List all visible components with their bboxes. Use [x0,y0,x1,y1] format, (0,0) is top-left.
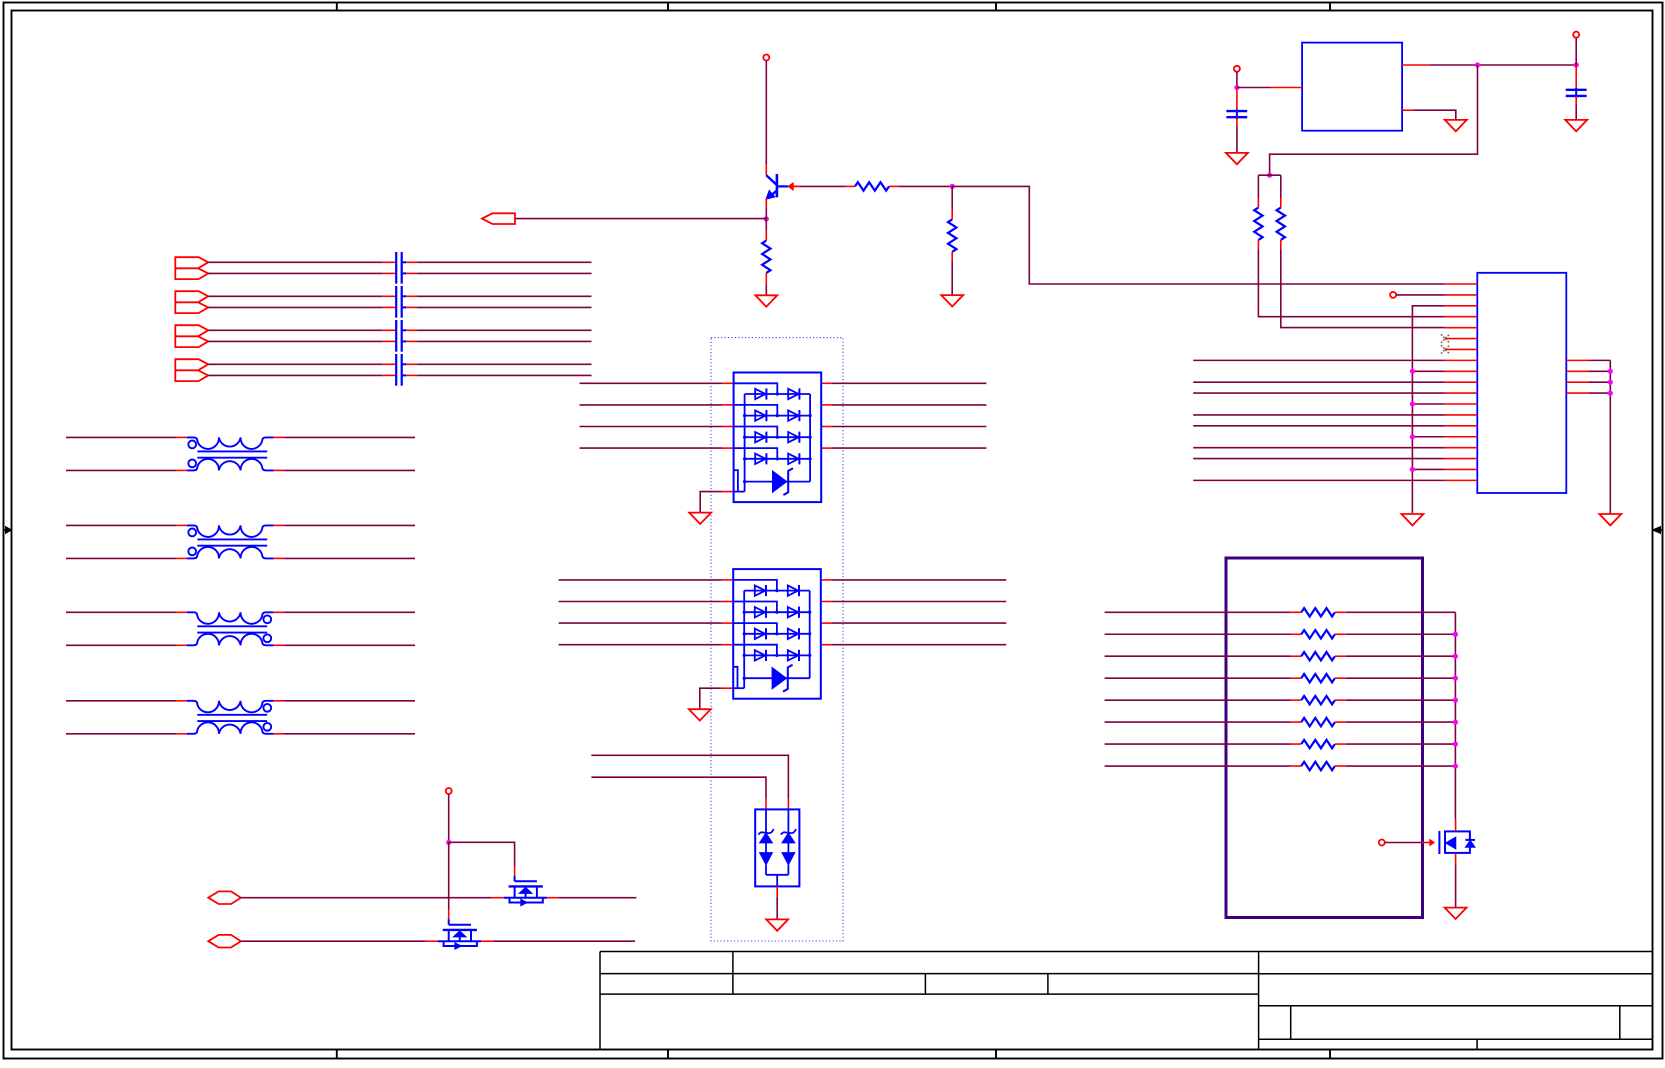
port CN4 [175,359,208,381]
port CN3 [175,325,208,347]
junction node C [1234,85,1239,90]
ground GND6 [1401,514,1423,525]
wire T1 out top [274,436,415,438]
wire collector [765,164,767,175]
ground GND1 [941,295,963,306]
wire T2 in bottom [66,557,187,559]
wire row 4 left [1105,677,1302,679]
wire CN2b [208,306,591,308]
regulator U2 [1302,43,1402,131]
wire T2 out top [274,524,415,526]
wire T1 in bottom [66,469,187,471]
ground GND5 [1445,120,1467,131]
IC U1 [1477,273,1566,493]
transistor Q3 [438,919,481,949]
wire row 7 right [1335,743,1456,745]
wire row 6 right [1335,721,1456,723]
no-connect X pin7 [1441,345,1449,353]
resistor RN7 [1301,740,1335,748]
resistor RN8 [1301,762,1335,770]
common-mode choke T2 [187,525,274,558]
ground GND8 [766,919,788,930]
resistor R1 [855,182,889,190]
border zone ticks top [337,3,1330,11]
wire output to divider [1270,65,1478,175]
wire CN4b [208,374,591,376]
wire T3 out bottom [274,644,415,646]
wire T3 in top [66,611,187,613]
wire CN1a [208,261,591,263]
wire CN4a [208,363,591,365]
wire row 3 left [1105,655,1302,657]
port IO2 [208,935,241,948]
sheet symbol SH1 [1226,558,1423,918]
wire CN2a [208,295,591,297]
wires U3 right [821,383,986,448]
wire gnd bus right [1608,360,1613,514]
resistor R5 [1277,175,1285,249]
wire row 1 left [1105,611,1302,613]
wire Q4 source [1455,864,1457,907]
port OUT1 [482,213,515,224]
common-mode choke T1 [187,437,274,470]
power port VCC1 [763,55,769,165]
resistor RN6 [1301,718,1335,726]
border mid arrow left [4,527,12,534]
wire T4 in bottom [66,733,187,735]
base pin arrow [788,183,800,190]
wire resistor bus [1453,612,1458,819]
capacitor C2 [1566,65,1587,120]
wire T2 in top [66,524,187,526]
resistor RN1 [1301,608,1335,616]
wire R4 to U1 pin4 [1258,249,1444,316]
wire row 5 left [1105,699,1302,701]
port EN1 [1379,840,1435,846]
ground GND7 [1599,514,1621,525]
power port VCC4 [446,788,452,842]
wire U3 gnd [700,492,733,513]
wire T4 out top [274,700,415,702]
junction node G [446,840,451,845]
power port VCC3 [1573,32,1579,65]
junction node B [764,216,769,221]
jumper J2 [396,286,406,318]
wires U1 to gnd bus [1410,369,1445,472]
common-mode choke T4 [187,701,274,734]
resistor R4 [1254,175,1262,249]
wire row 6 left [1105,721,1302,723]
wires U3 left [580,383,734,448]
resistor R2 [948,186,956,295]
wire CN3a [208,329,591,331]
wires U1 left long [1193,360,1445,480]
wire to Q2 gate [449,842,515,875]
wire node A to U1 pin1 [952,186,1445,284]
wire R1 to node [889,185,952,187]
wire VCC2 to U2 [1237,87,1302,89]
wires U4 left [559,580,734,645]
wire base [800,185,855,187]
wire row 4 right [1335,677,1456,679]
ground GND3 [1226,153,1248,164]
wire U2 output [1402,64,1576,66]
ground GND4 [1565,120,1587,131]
junction node E [1574,62,1579,67]
port CN1 [175,257,208,279]
ESD diode array U3 [734,373,822,503]
wire gnd bus left [1412,306,1444,514]
port IN2 [1390,292,1445,298]
ESD diode array U4 [733,569,821,699]
jumper J4 [396,354,406,386]
transistor Q1 [766,174,788,199]
resistor RN5 [1301,696,1335,704]
wire row 8 left [1105,765,1302,767]
wire D9 gnd [776,886,778,919]
ground GND9 [1445,908,1467,919]
wire row 5 right [1335,699,1456,701]
wire to Q3 gate [448,842,450,919]
selection rect [711,338,843,941]
wire CN1b [208,272,591,274]
no-connect X pin6 [1441,334,1449,342]
junction node A [950,184,955,189]
jumper J1 [396,252,406,284]
wire D9 pin1 [591,755,788,809]
dual TVS D9 [755,809,799,886]
resistor R3 [762,219,770,295]
wire row 7 left [1105,743,1302,745]
wire T4 in top [66,700,187,702]
wire row 3 right [1335,655,1456,657]
common-mode choke T3 [187,612,274,645]
wire row 2 right [1335,633,1456,635]
wire T1 in top [66,436,187,438]
U1 right pins [1566,360,1610,393]
wire T2 out bottom [274,557,415,559]
transistor Q2 [504,876,547,906]
ground GND2 [755,295,777,306]
port CN2 [175,291,208,313]
resistor RN2 [1301,630,1335,638]
wire emitter [765,198,767,219]
U1 left pins [1445,284,1478,480]
junction node F [1267,173,1272,178]
capacitor C1 [1226,90,1247,153]
wire T1 out bottom [274,469,415,471]
wire IO2 [241,940,438,942]
wire T4 out bottom [274,733,415,735]
wire row 2 left [1105,633,1302,635]
jumper J3 [396,320,406,352]
wire node B to port [515,218,766,220]
wire U4 gnd [700,688,733,709]
wire T3 out top [274,611,415,613]
wire row 1 right [1335,611,1456,613]
junction node D [1475,62,1480,67]
border mid arrow right [1653,527,1663,534]
wire T3 in bottom [66,644,187,646]
wire R5 to U1 pin5 [1281,249,1445,327]
wire CN3b [208,340,591,342]
wire row 8 right [1335,765,1456,767]
border zone ticks bottom [337,1050,1330,1059]
transistor Q4 [1439,820,1475,865]
wire IO1 [241,897,504,899]
port IO1 [208,891,241,904]
ground GND U4 [689,709,711,720]
wire Q2 right [547,897,636,899]
resistor RN3 [1301,652,1335,660]
title block [600,952,1653,1050]
wires U4 right [821,580,1007,645]
power port VCC2 [1234,66,1240,88]
wire U2 gnd pin [1402,110,1456,120]
wire divider top [1258,174,1280,176]
wire Q3 right [481,940,635,942]
ground GND U3 [689,513,711,524]
wire D9 pin2 [591,777,766,809]
resistor RN4 [1301,674,1335,682]
